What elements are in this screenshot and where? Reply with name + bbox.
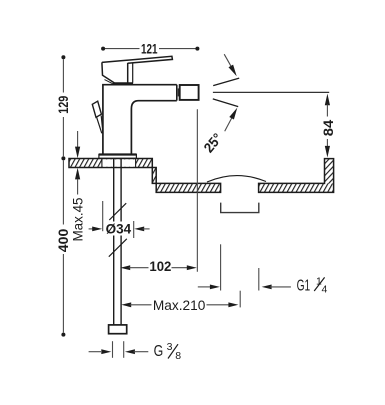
svg-text:G: G — [154, 343, 164, 360]
dim 129 dots — [61, 55, 65, 59]
svg-text:121: 121 — [141, 41, 158, 57]
drain lever rod — [97, 115, 103, 133]
G1 1/4 right arrow — [262, 285, 272, 290]
25 deg lower leader — [225, 118, 232, 132]
drain bracket — [221, 203, 259, 213]
dim 400 dot — [61, 333, 65, 337]
dim 102 right arrow — [172, 267, 190, 269]
hose end fitting — [109, 325, 127, 334]
bowl hump arc — [207, 176, 266, 182]
lever under-edge sliver — [105, 80, 113, 84]
cartridge collar — [113, 82, 133, 84]
lever neck vertical A — [127, 63, 129, 83]
svg-text:129: 129 — [55, 96, 71, 114]
G1 1/4 left ext line — [220, 244, 222, 290]
dim 121 dots — [101, 47, 105, 51]
dim Max.210 left arrow — [121, 302, 131, 307]
dim Max.45 lower arrow — [75, 168, 80, 180]
outlet connector — [177, 88, 179, 96]
handle lever blade — [102, 56, 172, 63]
dim O34 break slashes — [109, 203, 126, 220]
dim 102 left arrow — [120, 265, 130, 270]
25 deg upper leader — [224, 54, 231, 66]
svg-text:G1: G1 — [297, 278, 311, 295]
dim Max.45 upper arrow — [77, 131, 79, 147]
svg-text:102: 102 — [149, 258, 171, 274]
G 3/8 ticks — [112, 341, 114, 358]
svg-text:8: 8 — [175, 350, 181, 362]
bidet deck cross-section left — [69, 159, 221, 193]
dim O34 ticks — [102, 201, 104, 231]
faucet spout bottom + fillet + trunk right edge — [131, 101, 176, 155]
svg-text:4: 4 — [322, 284, 328, 296]
aerator outlet box — [180, 85, 199, 100]
bidet deck cross-section right with riser — [259, 183, 334, 192]
dim 129 line — [62, 59, 64, 92]
faucet spout end face — [176, 85, 178, 101]
svg-text:3: 3 — [167, 341, 173, 353]
svg-text:25°: 25° — [200, 130, 225, 156]
lever front face — [102, 62, 114, 83]
dim Max.210 ext line — [239, 291, 241, 308]
faucet body fill — [103, 85, 177, 155]
supply pipe — [113, 158, 115, 324]
drain lever knob — [92, 101, 101, 117]
lever neck vertical B — [132, 63, 134, 83]
svg-text:Max.210: Max.210 — [153, 297, 206, 313]
dim Max.210 right arrow — [207, 304, 232, 306]
deck hole for faucet — [102, 159, 135, 166]
faucet body left edge — [102, 85, 104, 155]
dim 84 upper arrow — [325, 94, 330, 106]
spray lower line — [213, 99, 238, 107]
spray upper line — [213, 78, 239, 86]
svg-text:Max.45: Max.45 — [69, 197, 85, 241]
dim 121 line — [105, 48, 140, 50]
dim O34 right arrow — [134, 227, 144, 232]
base plate — [99, 154, 136, 158]
dim 400 line — [62, 161, 64, 225]
G1 1/4 left arrow — [198, 286, 213, 288]
dim O34 left arrow — [89, 228, 95, 230]
stream centerline — [196, 109, 198, 271]
G 3/8 left arrow — [89, 351, 101, 353]
dim 84 lower arrow — [326, 139, 328, 147]
G1 1/4 right ext line — [258, 268, 260, 291]
spray reference line — [213, 91, 329, 93]
G 3/8 right arrow — [125, 349, 135, 354]
faucet body top — [102, 84, 177, 86]
dim O34 text — [104, 222, 133, 236]
svg-text:Ø34: Ø34 — [106, 221, 132, 237]
svg-text:84: 84 — [320, 119, 336, 136]
